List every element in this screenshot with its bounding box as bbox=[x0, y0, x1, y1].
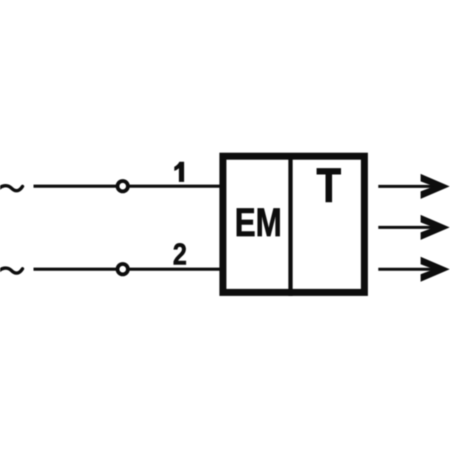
svg-text:2: 2 bbox=[173, 238, 187, 272]
block EM/T outline bbox=[223, 156, 365, 292]
svg-text:EM: EM bbox=[235, 201, 282, 245]
output arrow 2 head bbox=[421, 215, 450, 240]
AC source symbol ~ (phase 1) bbox=[0, 186, 23, 192]
wire 1 bbox=[34, 185, 222, 188]
AC source symbol ~ (phase 2) bbox=[0, 268, 23, 274]
label 1 bbox=[174, 162, 184, 182]
terminal circle on wire 1 bbox=[118, 181, 128, 191]
output arrow 3 shaft bbox=[378, 268, 434, 271]
output arrow 2 shaft bbox=[378, 226, 434, 229]
divider line between EM and T sections bbox=[288, 156, 292, 296]
output arrow 1 head bbox=[421, 174, 450, 199]
output arrow 3 head bbox=[421, 257, 450, 282]
svg-text:T: T bbox=[317, 160, 342, 213]
terminal circle on wire 2 bbox=[118, 264, 128, 274]
wire 2 bbox=[34, 268, 222, 271]
output arrow 1 shaft bbox=[378, 185, 434, 188]
